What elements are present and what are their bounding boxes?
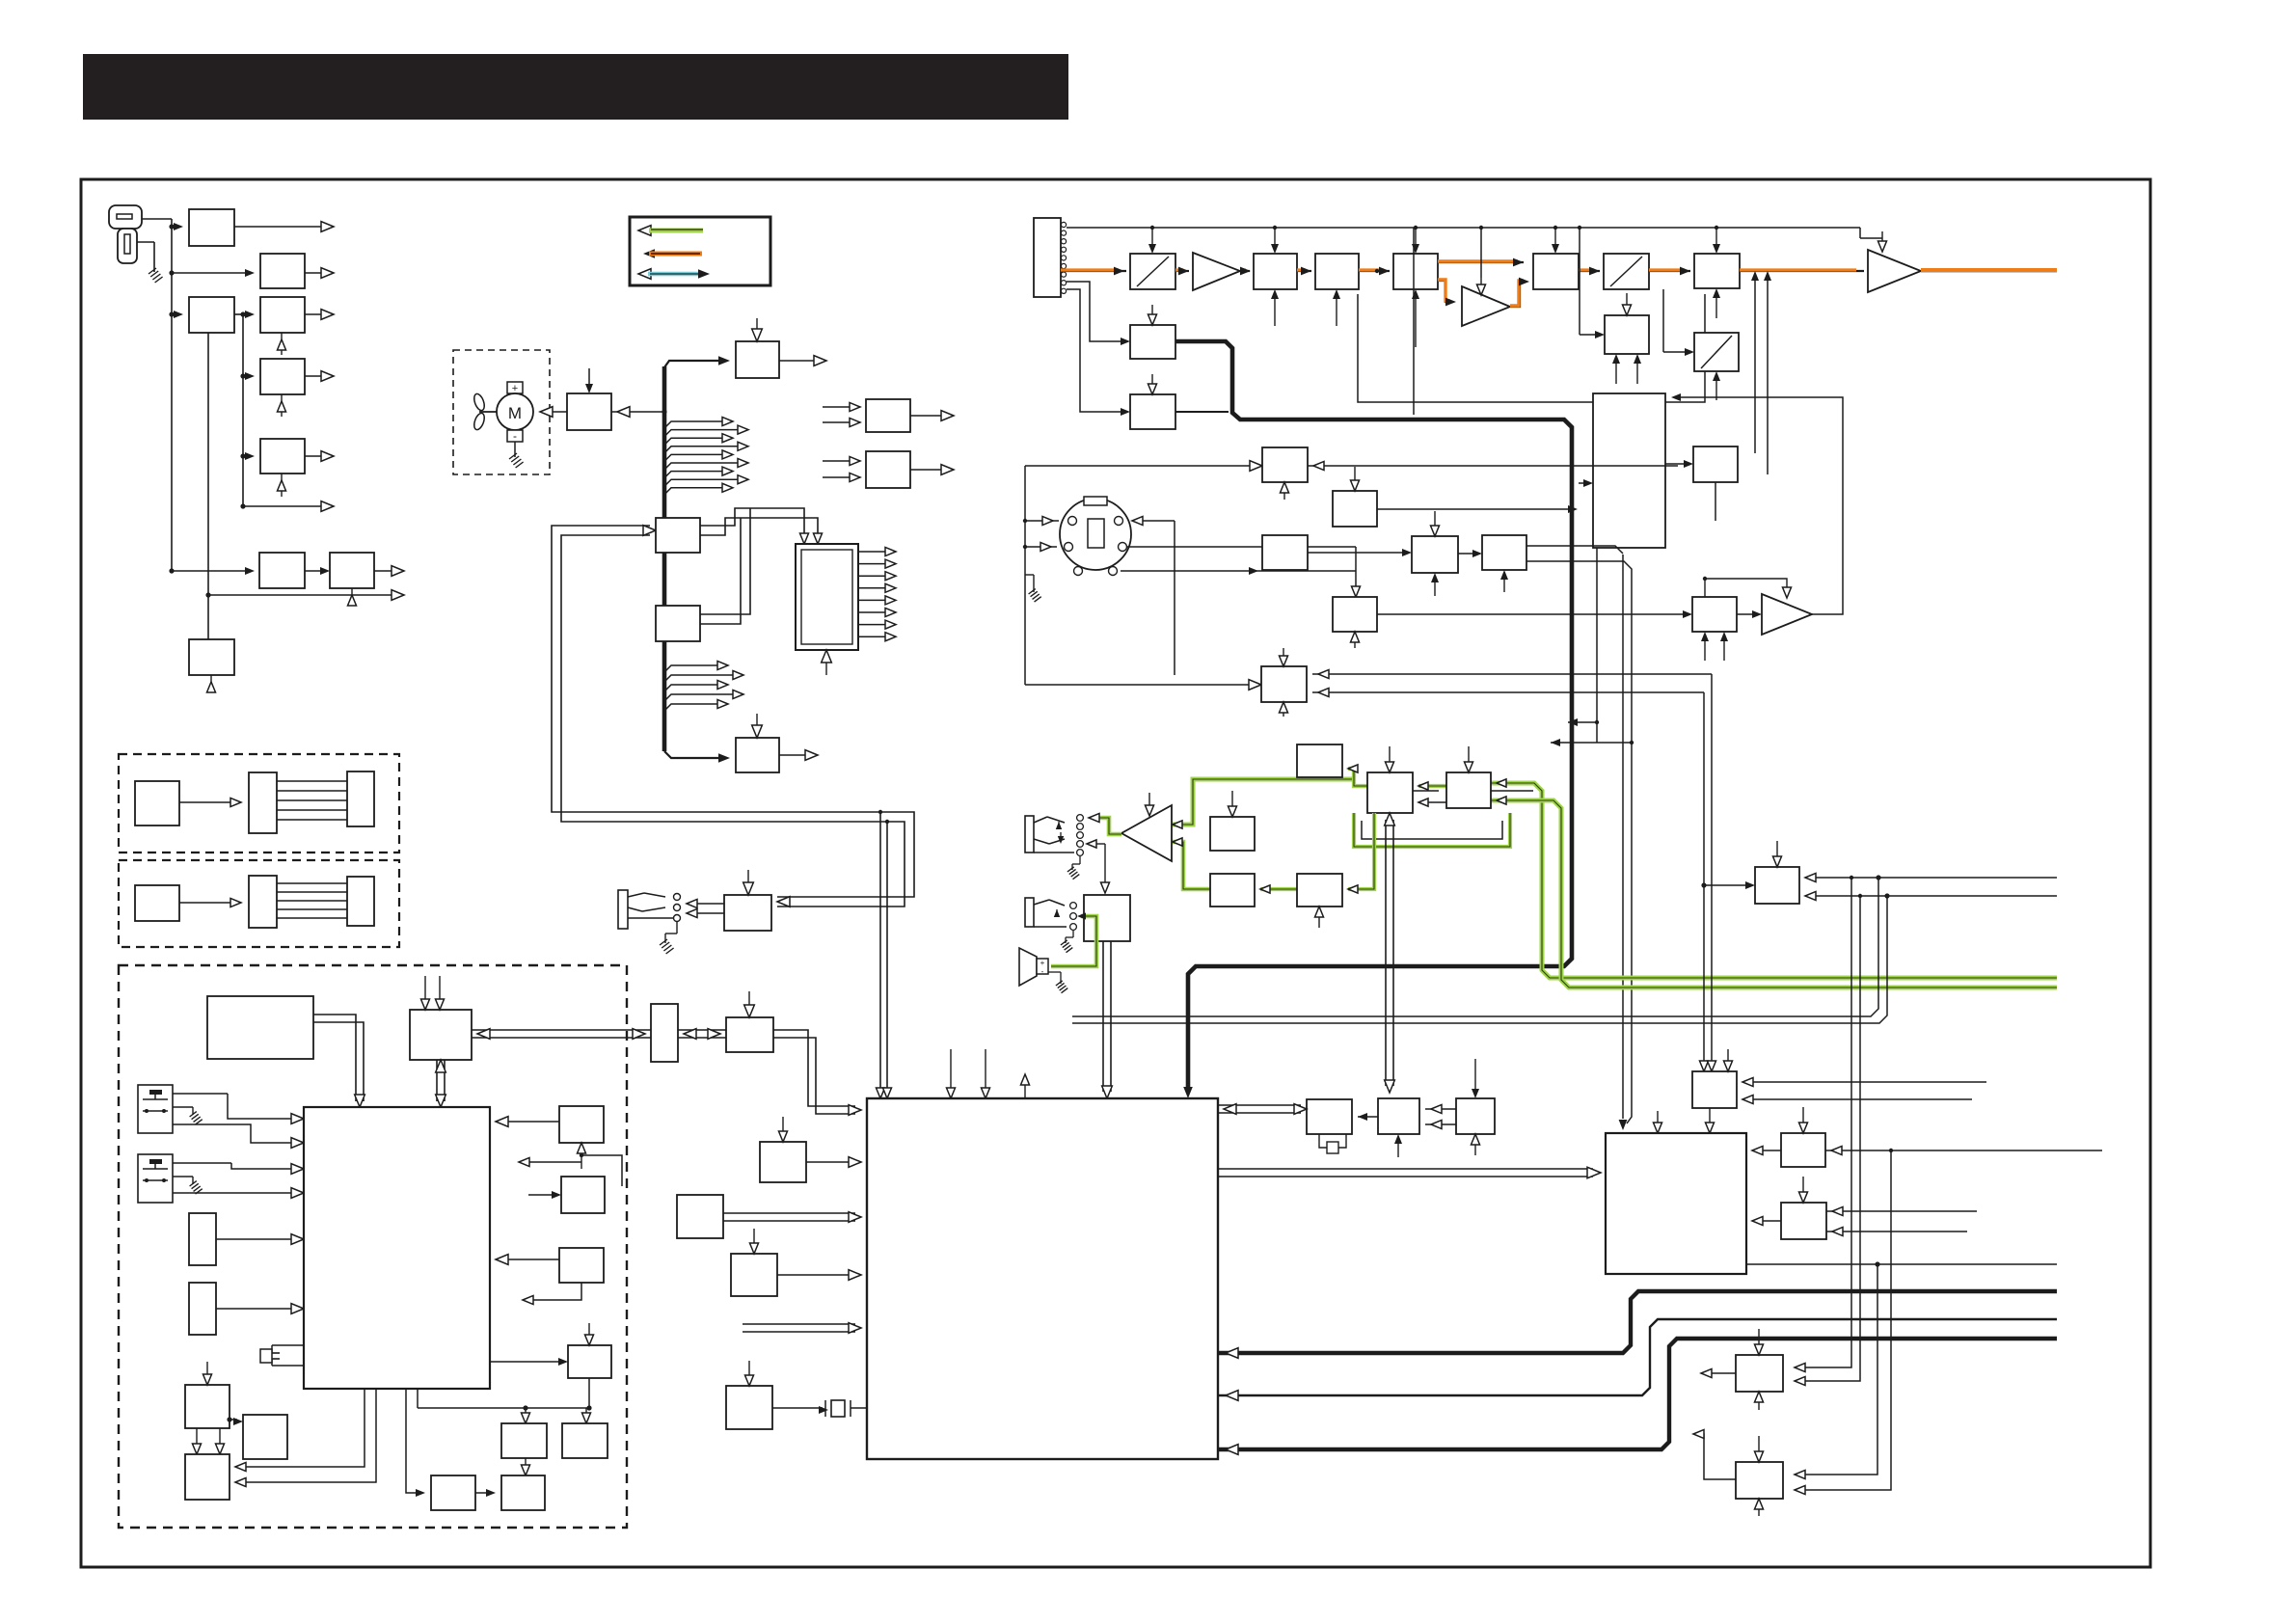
box RT1 [1781,1133,1825,1167]
ground symbol DIN [1029,589,1036,594]
DIN ground wire [1033,575,1035,592]
box G3 [1446,772,1491,808]
wire O2 to connector [179,902,233,904]
key-display double bus [552,526,914,897]
box BR1 [1736,1355,1783,1392]
option box O2 [135,885,179,921]
DIN connector circle [1060,499,1131,570]
arrow down into W1 top [782,1117,784,1135]
RD1 right wire [1308,465,1678,467]
black wires along green cluster [1413,790,1439,792]
ground symbol jack [660,939,667,945]
orange A1 to B2 [1240,270,1250,272]
wire rail output row [243,505,326,507]
arrow down into SB1 top [1776,841,1778,860]
headphone amp AH [1121,805,1172,861]
push switch SW2 [138,1154,173,1203]
amp A2 [1462,286,1510,326]
wire trunk to P7 [172,570,247,572]
mid drop wire [1413,228,1415,415]
U2 to DSP double wire [773,1030,855,1106]
regulator box P3 [189,297,234,333]
variable box B10 [1694,333,1739,371]
RT1 to servo wire [1752,1150,1781,1151]
RT1 right wire [1825,1150,2102,1151]
arrow up into B3 bottom [1336,296,1337,326]
servo box SV [1606,1133,1746,1274]
input connector CN [1034,218,1061,297]
wire jack to V box [1091,843,1105,845]
box RS1 [559,1106,604,1143]
mixer box G1 [1297,744,1342,777]
wire P3 to P4 [234,313,247,315]
DSP to XT1 double wire [1218,1104,1301,1106]
SW1 wires to syscon [173,1093,228,1095]
svg-text:M: M [508,404,522,422]
K2 double wire [700,508,750,614]
orange signal CN to B1 [1061,270,1126,272]
SB1 right wires [1805,877,2057,879]
box L1 [185,1385,230,1428]
RD3 to RD4 wire [1308,552,1406,554]
box RD5 [1333,597,1377,632]
box G5 [1210,874,1255,907]
wire T2 output [779,754,810,756]
orange line out [1921,270,2057,273]
syscon wires to L3 [241,1389,365,1467]
bus bottom elbow to T2 [664,751,721,758]
RS2 input wire [528,1194,555,1196]
W1 to DSP wire [806,1161,855,1163]
bus top elbow to T1 [664,361,721,367]
wire bus fanout lower [664,685,720,691]
legend box [630,217,770,285]
amp A1 [1193,253,1240,290]
box XT3 [1456,1098,1495,1134]
arrow down into RD6 top [1283,648,1284,660]
orange B4 upper to B5 [1438,261,1524,263]
arrow up into BR1 bottom [1758,1398,1760,1410]
RBb input wires [823,460,860,462]
arrows down into R2 top [424,976,426,1003]
phones interface box PB [724,895,771,931]
thick bus C1 C2 to DSP [1175,341,1572,1092]
wire bus fanout [664,430,741,437]
arrow up into P5 bottom [281,394,283,417]
arrow down into RT1 top [1802,1107,1804,1126]
box RT2 [1781,1203,1826,1239]
arrow down into G2 top [1389,746,1391,766]
connector block CB1 [347,771,374,826]
box B5 [1533,254,1579,289]
W2 to DSP wire [777,1274,855,1276]
box B4 [1393,254,1438,289]
double wire into DSP left [743,1323,855,1325]
sensor box Ba [189,1213,216,1265]
wire rail lower output row [208,594,396,596]
arrow MD to motor [544,411,567,413]
box W2 [731,1254,777,1296]
box B9 [1605,315,1649,354]
power rail vertical trunk C [207,333,209,639]
XT3 to XT2 wires [1425,1108,1456,1110]
wire bus fanout lower [664,665,720,672]
ribbon wires 2 [277,882,347,884]
orange B3 to B4 [1359,270,1390,272]
orange B7 to A3 [1740,270,1864,272]
DIN right wires [1138,520,1175,522]
K1 to display double wire [700,508,804,536]
wire trunk to P3 [172,313,176,315]
arrow down into C2 top [1151,374,1153,388]
ground symbol plug [149,268,156,274]
syscon dashed enclosure [119,965,627,1528]
box XT1 [1307,1099,1352,1134]
box L3 [185,1454,230,1500]
rail drop arrows [1151,228,1153,246]
DSP main box [867,1098,1218,1459]
arrow down into BR1 top [1758,1329,1760,1348]
amp feed box RB [1692,597,1737,632]
green speaker wire [1051,916,1096,966]
box RS3 [559,1248,604,1283]
power rail vertical trunk A [171,227,173,571]
box RD1 [1262,447,1308,482]
regulator box P2 [260,254,305,288]
crystal XT1 resonator [1319,1134,1327,1148]
legend cyan arrow [638,269,651,280]
svg-text:+: + [1040,959,1045,967]
box RM [1692,1071,1737,1108]
box XT2 [1378,1098,1419,1134]
box U2 [726,1017,773,1052]
arrow down into PB top [747,870,749,888]
vertical wires to servo [1622,555,1624,1119]
arrow down into U2 top [748,991,750,1011]
B9 input wire [1580,334,1599,336]
box B2 [1254,254,1297,289]
arrow down into DSP top b [985,1049,986,1092]
arrow down into B9 top [1626,293,1628,309]
key box K1 [656,518,700,553]
box G2 [1367,772,1413,813]
wire P6 output [305,455,326,457]
box T2 [736,738,779,772]
box RBb [866,451,910,488]
arrow down into A2 top [1480,278,1482,287]
wire plug to P1 [142,218,172,220]
motor dashed enclosure [453,350,550,474]
rec jack ground wire [1072,931,1074,937]
push switch SW1 [138,1085,173,1133]
arrow down into C1 top [1151,305,1153,318]
ARB output wire to BB [1677,397,1843,614]
green G3 inputs from bus [1497,779,1506,787]
interface box C2 [1130,394,1175,429]
SW1 ground wire [173,1106,193,1108]
option dashed box 2 [119,860,399,947]
wire bus fanout lower [664,694,736,701]
phones switch arrows [1056,822,1062,829]
wire bus fanout lower [664,704,720,711]
W3 to crystal wire [772,1407,823,1409]
box RB4 [501,1475,545,1510]
wire P1 output [234,226,326,228]
arrow down into DSP top a [950,1049,952,1092]
arrow down into BR2 top [1758,1436,1760,1455]
TN to U2 double arrow wire [678,1029,726,1031]
wire P4 output [305,313,326,315]
amp ARB [1762,594,1812,635]
green line A to output [1491,783,2057,978]
orange B5 to B6 [1579,270,1600,272]
svg-text:-: - [513,429,517,443]
syscon wire to RS4 [490,1361,562,1363]
arrow up into XT2 bottom [1397,1141,1399,1157]
power rail vertical trunk B [242,314,244,506]
wire trunk to P6 [243,455,247,457]
legend orange arrow [643,249,655,258]
wire P7 to P8 [305,570,322,572]
SW2 wires to syscon [173,1162,231,1164]
arrow down into RS4 top [588,1323,590,1339]
wire bus fanout [664,472,725,478]
wire O1 to connector [179,801,233,803]
regulator box P9 [189,639,234,675]
box RS4 [568,1345,611,1378]
wire bus fanout [664,421,725,428]
box G4 [1210,817,1255,851]
box RB3 [431,1475,475,1510]
feedback verticals under orange [1754,277,1756,453]
green G3 to G2 wire [1418,784,1446,788]
box B7 [1694,254,1740,288]
RC1 down wire [1715,482,1716,521]
phones jack ground wire [1079,856,1081,864]
RB input wire [1639,613,1687,615]
headphone jack symbol [618,890,628,929]
wire bus fanout lower [664,675,736,682]
box RD4 [1412,536,1458,573]
SB1 left wire [1704,884,1749,886]
box T1 [736,341,779,378]
R1 to syscon double wire [313,1015,356,1101]
orange B4 lower to amp A2 [1438,281,1452,302]
rec jack symbol [1025,898,1034,927]
arrow down into W3 top [748,1361,750,1379]
Bb wire to syscon [216,1308,296,1310]
arrows down into RB1 RB2 [525,1408,527,1417]
G2 long double arrow down [1385,820,1387,1086]
DSP to servo long double wire [1218,1168,1593,1170]
motor ground wire [514,442,516,457]
box RC1 [1693,447,1738,482]
C2 join thick bus [1175,411,1229,413]
arrow up into P4 bottom [281,333,283,355]
wire trunk to P5 [243,375,247,377]
SW2 ground wire [173,1176,193,1177]
svg-text:-: - [1041,967,1044,976]
L1 to L3 arrows [196,1428,198,1448]
regulator box P7 [259,553,305,588]
connector block CA2 [249,876,277,928]
motor minus terminal [507,430,523,442]
regulator box P1 [189,209,234,246]
ground symbol phones jack [1067,867,1074,872]
box L2 [243,1415,287,1459]
RBa input wires [823,406,860,408]
box RBa [866,399,910,432]
RD5 to RB wire [1377,613,1639,615]
wire bus to MD [611,411,664,413]
system control micro box S [304,1107,490,1389]
variable box B6 [1604,254,1649,289]
box RS2 [561,1177,605,1213]
speaker symbol [1019,948,1037,986]
feedback loop wire [1358,294,1705,402]
wire bus fanout [664,447,741,453]
arrow up into RD4 bottom [1434,580,1436,596]
ground symbol speaker [1056,981,1063,986]
arrow up into P8 bottom [351,588,353,603]
arrows up into RB bottom [1704,638,1706,661]
arrow down into AH top [1148,793,1150,808]
PB to jack double wire [690,903,724,905]
arrow up into G6 bottom [1318,913,1320,928]
ground symbol rec jack [1061,940,1067,945]
arrow up from DSP top [1024,1082,1026,1098]
wire plug ground [137,241,154,243]
arrow up into RD1 bottom [1283,489,1285,500]
motor M circle [497,393,533,430]
RBb output wire [910,469,946,471]
arrows up into B9 bottom [1615,361,1617,384]
R2 to syscon double wire [436,1060,438,1101]
wire trunk to P2 [172,272,247,274]
orange B1 to A1 [1175,270,1189,272]
arrow into servo top mid [1657,1111,1659,1126]
wire bus fanout [664,488,725,495]
RBa output wire [910,415,946,417]
box RB2 [562,1423,608,1458]
box W3 [726,1386,772,1429]
mute box V [1084,895,1130,941]
green line B to output [1491,800,2057,988]
crystal to DSP wire [851,1407,867,1409]
arrow down into RT2 top [1802,1177,1804,1196]
regulator box P5 [260,359,305,394]
arrow up into B7 bottom [1715,295,1717,318]
arrow up into XT3 bottom [1474,1141,1476,1155]
box G6 [1297,874,1342,907]
arrow down into T1 top [756,318,758,335]
arrow up into RS1 bottom [581,1150,582,1169]
regulator box P8 [330,553,374,588]
option box O1 [135,781,179,826]
legend green arrow [638,226,651,236]
RS3 wire into syscon [501,1259,559,1260]
display output arrows [858,551,888,553]
L1 junction wire to L2 [230,1419,237,1421]
thick data wire C [1218,1339,2057,1449]
RM right input wires [1742,1081,1986,1083]
wire P8 output [374,570,396,572]
BR2 left elbow wire [1699,1434,1736,1479]
green G6 to G4 wire [1260,887,1297,891]
arrow up into B4 bottom [1415,296,1417,347]
ground symbol SW2 [190,1181,197,1186]
ARB top feedback [1704,579,1706,597]
RD2 output wire to bus [1377,508,1570,510]
display box D double border [796,544,858,650]
page header black title bar [83,54,1068,120]
arrow down into MD top [588,368,590,387]
ground symbol SW1 [190,1112,197,1117]
thick data wire A [1218,1291,2057,1353]
BB to RC1 wire [1665,463,1688,465]
junction arrows on verticals [1596,548,1598,743]
wire bus fanout [664,454,725,461]
box B3 [1315,254,1359,289]
jack ground wire [676,922,678,934]
arrow up into P6 bottom [281,474,283,497]
wire T1 output [779,360,819,362]
key box K2 [656,606,700,641]
green line A from amp [1173,779,1354,825]
RB3 to RB4 wire [475,1492,490,1494]
arrow up into RB2 bottom [585,1465,587,1472]
interface box C1 [1130,325,1175,359]
verticals to BR boxes [1795,878,1851,1367]
thick system bus vertical [662,366,667,751]
arrow down into XT3 top [1474,1059,1476,1092]
arrow RM down into servo [1709,1108,1711,1126]
B10 input wire [1663,351,1688,353]
green loop under G2 G3 [1354,813,1510,847]
RS1 lower left arrow wire [581,1155,622,1186]
rec switch arrow [1054,909,1060,917]
RD6 right input wires [1312,673,1712,675]
box RD3 [1262,535,1308,570]
W4 to DSP double wire [723,1212,855,1214]
crystal X2 body [260,1349,272,1363]
RS3 lower left arrow wire [528,1283,581,1300]
connector block CA1 [249,772,277,833]
DIN pins [1068,517,1077,526]
arrow up into RD4b bottom [1503,577,1505,592]
RT2 right wires [1826,1210,1977,1212]
orange B6 to B7 [1649,270,1690,272]
R2 to TN double arrow wire [472,1029,651,1031]
box RB1 [501,1423,547,1458]
DIN left wires [1025,465,1256,467]
RD4a to RD4b wire [1458,553,1476,555]
arrow down into T2 top [756,714,758,731]
orange B2 to B3 [1297,270,1311,272]
arrow up into RD5 bottom [1354,638,1356,648]
RS1 wire into syscon [501,1121,559,1123]
box RD2 [1333,491,1377,527]
wire double pair from serial bus to DSP top [879,812,881,1092]
block R2 [410,1010,472,1060]
arrow down RB1 to RB4 [525,1458,527,1469]
arrow down into G3 top [1468,746,1470,766]
ribbon wires 1 [277,780,347,782]
green amp lower input from G5 [1173,842,1210,889]
amp A3 [1868,250,1921,292]
phones jack symbol [1025,816,1034,853]
variable box B1 [1130,254,1175,289]
